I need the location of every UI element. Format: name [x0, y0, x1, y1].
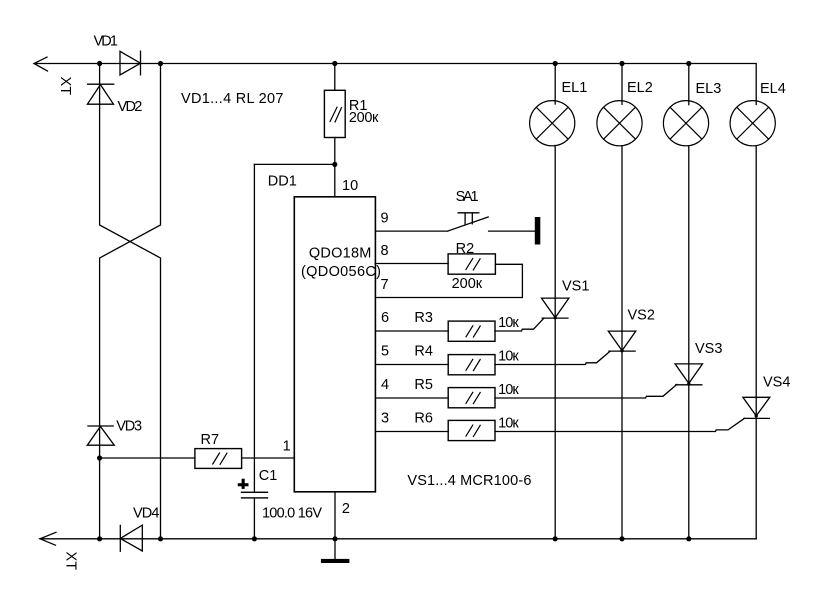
svg-text:R5: R5 — [414, 377, 433, 393]
svg-text:VS1: VS1 — [562, 279, 589, 295]
svg-text:VS2: VS2 — [628, 308, 655, 324]
svg-text:VD3: VD3 — [116, 419, 142, 435]
svg-text:7: 7 — [381, 277, 389, 293]
svg-text:10к: 10к — [498, 315, 519, 331]
svg-text:VS4: VS4 — [763, 375, 790, 391]
svg-text:10к: 10к — [498, 416, 519, 432]
svg-text:EL2: EL2 — [627, 80, 653, 96]
svg-text:QDO18M: QDO18M — [309, 245, 372, 261]
svg-text:9: 9 — [381, 210, 389, 226]
svg-text:200к: 200к — [349, 110, 379, 126]
svg-text:1: 1 — [283, 439, 291, 455]
svg-text:VD1: VD1 — [94, 33, 119, 49]
svg-text:EL4: EL4 — [760, 81, 786, 97]
svg-text:XT: XT — [57, 77, 73, 96]
svg-text:C1: C1 — [259, 468, 278, 484]
svg-text:R2: R2 — [456, 241, 475, 257]
svg-text:10к: 10к — [498, 382, 519, 398]
svg-text:10: 10 — [342, 178, 358, 194]
svg-text:5: 5 — [381, 344, 389, 360]
svg-text:100.0 16V: 100.0 16V — [262, 506, 322, 522]
svg-text:10к: 10к — [498, 349, 519, 365]
svg-text:EL1: EL1 — [562, 80, 588, 96]
svg-text:VD1...4 RL 207: VD1...4 RL 207 — [181, 91, 284, 107]
svg-text:R6: R6 — [414, 411, 433, 427]
svg-text:DD1: DD1 — [268, 174, 297, 190]
svg-text:2: 2 — [342, 501, 350, 517]
svg-text:6: 6 — [381, 310, 389, 326]
svg-text:SA1: SA1 — [456, 189, 479, 205]
svg-text:XT: XT — [63, 552, 79, 571]
svg-text:EL3: EL3 — [696, 81, 722, 97]
svg-text:R3: R3 — [414, 310, 433, 326]
svg-text:3: 3 — [381, 411, 389, 427]
svg-text:VS3: VS3 — [695, 341, 722, 357]
svg-text:4: 4 — [381, 377, 389, 393]
svg-text:8: 8 — [381, 243, 389, 259]
svg-text:R7: R7 — [201, 432, 220, 448]
svg-text:VD2: VD2 — [118, 99, 143, 115]
svg-text:200к: 200к — [452, 276, 483, 292]
svg-text:(QDO056C): (QDO056C) — [301, 264, 381, 280]
svg-text:VS1...4 MCR100-6: VS1...4 MCR100-6 — [407, 473, 531, 489]
svg-text:R4: R4 — [414, 344, 433, 360]
svg-text:VD4: VD4 — [133, 506, 159, 522]
